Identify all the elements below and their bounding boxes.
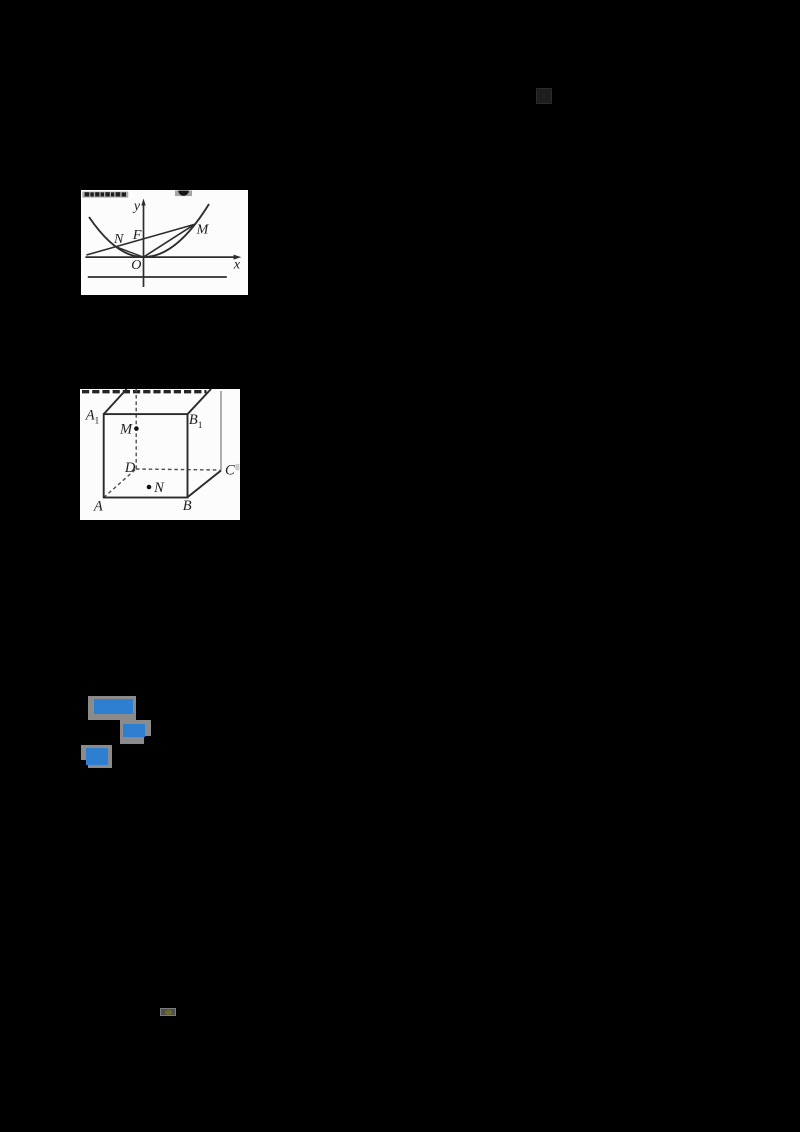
svg-text:C: C [225, 463, 235, 479]
svg-text:B1: B1 [189, 412, 203, 431]
svg-text:x: x [233, 258, 241, 273]
svg-text:M: M [196, 223, 210, 238]
svg-text:D: D [124, 460, 136, 476]
svg-text:N: N [153, 480, 165, 496]
svg-text:O: O [131, 258, 141, 273]
svg-text:A1: A1 [85, 408, 100, 427]
svg-text:F: F [132, 228, 142, 243]
svg-text:M: M [119, 421, 133, 437]
svg-text:N: N [113, 232, 124, 247]
svg-text:y: y [132, 199, 141, 214]
svg-text:A: A [93, 499, 103, 515]
svg-text:B: B [183, 498, 192, 514]
